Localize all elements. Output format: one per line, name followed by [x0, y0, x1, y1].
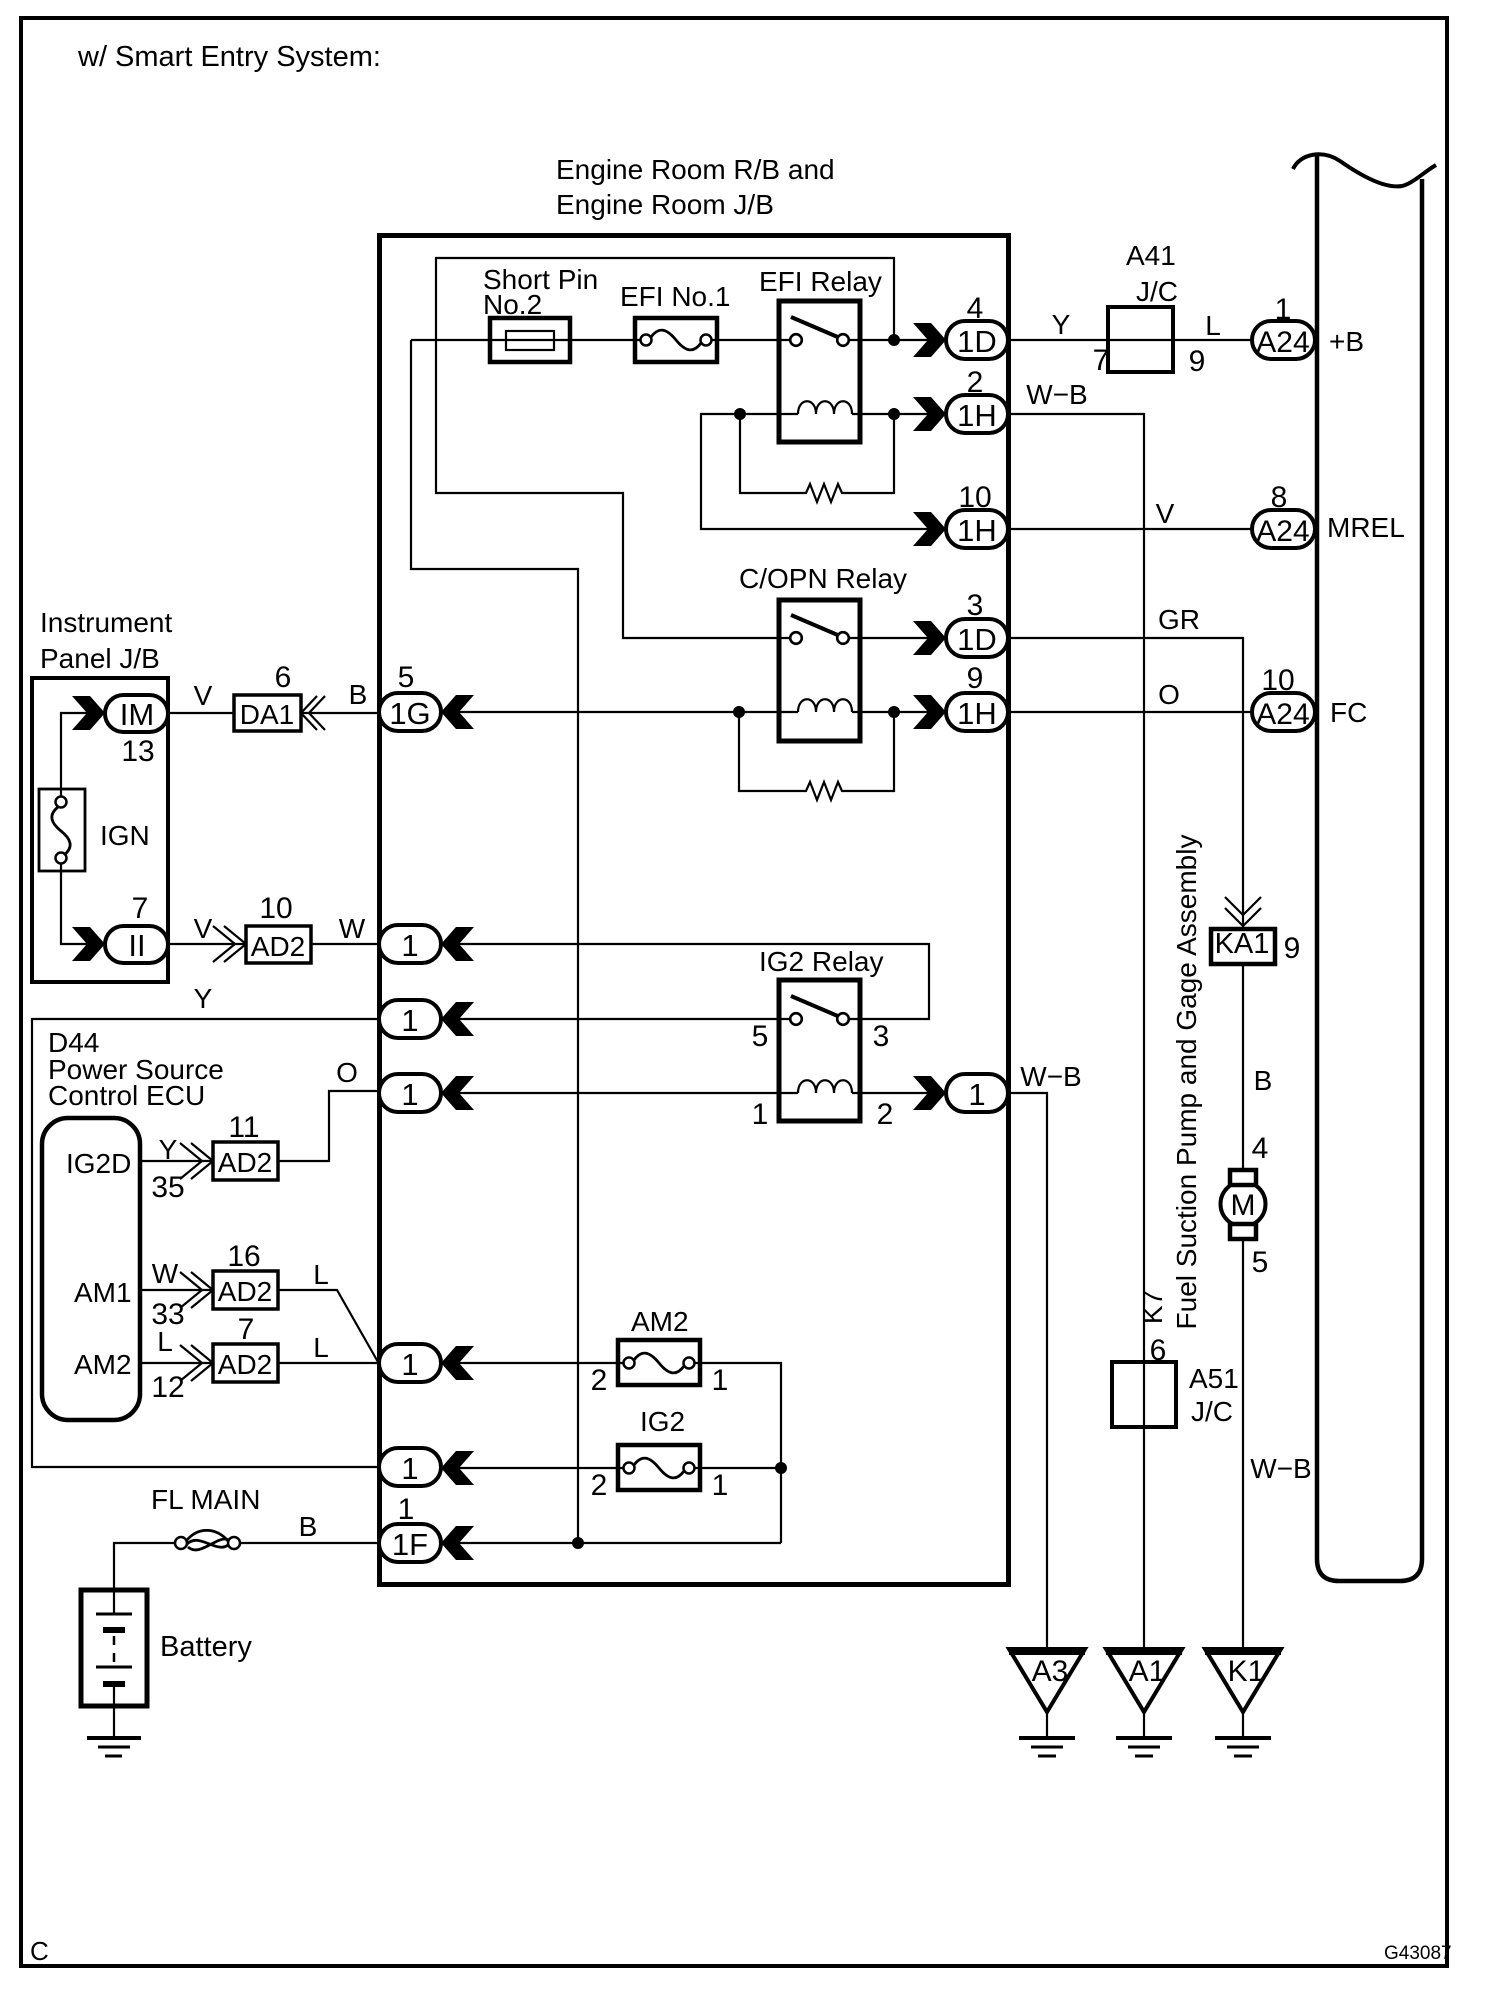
svg-text:7: 7: [238, 1313, 255, 1346]
svg-text:2: 2: [591, 1469, 608, 1502]
svg-text:W−B: W−B: [1250, 1453, 1311, 1484]
svg-text:IG2: IG2: [640, 1406, 685, 1437]
junction connector AD2 (7): [180, 1344, 278, 1382]
svg-text:1H: 1H: [957, 398, 997, 433]
ground K1: [1205, 1649, 1281, 1756]
connector 1 (W-B out): [913, 1076, 946, 1110]
motor M fuel pump: [1221, 1170, 1266, 1239]
svg-text:9: 9: [967, 662, 984, 695]
svg-text:4: 4: [967, 292, 984, 325]
wire: AM1 to AD2 (16): [140, 1289, 213, 1291]
svg-text:Panel J/B: Panel J/B: [40, 643, 160, 674]
Engine Room R/B and J/B box: [380, 236, 1009, 1585]
wire: battery to FL MAIN to 1F: [114, 1543, 379, 1590]
svg-text:IG2D: IG2D: [66, 1148, 131, 1179]
svg-text:A1: A1: [1129, 1655, 1166, 1688]
svg-text:B: B: [349, 679, 368, 710]
svg-text:O: O: [336, 1057, 358, 1088]
connector 1D (4): [913, 323, 946, 357]
wire: IG2 relay pin3 to 1 oval (W row): [458, 944, 929, 1019]
svg-text:11: 11: [228, 1111, 259, 1144]
resistor: EFI relay parallel resistor: [740, 414, 894, 502]
Instrument Panel J/B box: [32, 678, 168, 982]
wire: 1 oval (L row) to AM2 fuse: [458, 1362, 620, 1364]
wire: J/B internal IGN feed: [61, 713, 88, 944]
junction connector KA1: [1211, 897, 1275, 964]
connector 1 (L row): [441, 1346, 474, 1380]
svg-text:4: 4: [1252, 1132, 1269, 1165]
svg-text:w/ Smart Entry System:: w/ Smart Entry System:: [77, 41, 381, 73]
svg-text:J/C: J/C: [1136, 276, 1178, 307]
wire: battery feed from main wire down to 1F row: [411, 340, 578, 1543]
svg-text:Control ECU: Control ECU: [48, 1080, 205, 1111]
connector 1G: [441, 695, 474, 729]
connector IM: [72, 696, 105, 730]
fuse AM2: [618, 1340, 700, 1385]
svg-text:Battery: Battery: [160, 1631, 252, 1663]
svg-text:V: V: [1156, 498, 1175, 529]
connector II: [72, 927, 105, 961]
wire: Y loop from 1 oval to 1 oval: [32, 1019, 379, 1467]
connector 1H (10): [913, 512, 946, 546]
svg-text:Engine Room J/B: Engine Room J/B: [556, 189, 774, 220]
svg-text:FC: FC: [1330, 697, 1367, 728]
svg-text:1: 1: [712, 1469, 729, 1502]
svg-text:KA1: KA1: [1215, 928, 1270, 960]
svg-text:1G: 1G: [389, 696, 430, 731]
svg-text:No.2: No.2: [483, 289, 542, 320]
short pin No.2: [490, 318, 570, 362]
junction connector DA1: [234, 695, 325, 731]
svg-text:1: 1: [401, 1347, 418, 1382]
svg-text:K1: K1: [1228, 1655, 1265, 1688]
connector 1H (2): [913, 397, 946, 431]
svg-text:1: 1: [401, 1003, 418, 1038]
junction dot at IG2 fuse output riser: [775, 1462, 787, 1474]
svg-text:10: 10: [1261, 664, 1294, 697]
svg-text:6: 6: [275, 661, 292, 694]
connector 1F: [441, 1526, 474, 1560]
svg-text:O: O: [1158, 679, 1180, 710]
wire: 1 oval (Y row) to IG2 relay pin5: [458, 1018, 790, 1020]
connector 1 (Y loop row): [441, 1451, 474, 1485]
svg-text:AD2: AD2: [218, 1276, 272, 1307]
svg-text:1H: 1H: [957, 513, 997, 548]
wire: EFI relay output loop to C/OPN relay switch: [436, 258, 894, 638]
wire: AD2 (16) L output diagonal to L row: [278, 1290, 378, 1362]
junction connector AD2 (16): [180, 1271, 278, 1309]
svg-text:12: 12: [151, 1371, 184, 1404]
svg-text:W−B: W−B: [1020, 1061, 1081, 1092]
svg-text:A51: A51: [1189, 1363, 1239, 1394]
svg-text:V: V: [194, 913, 213, 944]
svg-text:AM2: AM2: [631, 1306, 689, 1337]
svg-text:7: 7: [132, 892, 149, 925]
ground A3: [1009, 1649, 1085, 1756]
junction dot at EFI relay switch output: [888, 334, 900, 346]
svg-text:A24: A24: [1256, 326, 1309, 359]
svg-text:FL MAIN: FL MAIN: [151, 1484, 260, 1515]
svg-text:L: L: [313, 1259, 329, 1290]
svg-text:2: 2: [877, 1098, 894, 1131]
svg-text:9: 9: [1189, 345, 1206, 378]
junction dot at EFI coil right: [888, 408, 900, 420]
svg-text:13: 13: [121, 735, 154, 768]
wire: 1D to A41 to A24 +B: [1008, 339, 1252, 341]
connector A24 FC: [1252, 693, 1315, 731]
svg-text:Fuel Suction Pump and Gage Ass: Fuel Suction Pump and Gage Assembly: [1171, 835, 1202, 1330]
wire: 1G to C/OPN relay coil to 1H(9): [458, 711, 929, 713]
svg-text:8: 8: [1271, 481, 1288, 514]
wire: 1H(10) to A24 MREL: [1008, 528, 1252, 530]
svg-text:Y: Y: [159, 1134, 178, 1165]
svg-text:AD2: AD2: [218, 1349, 272, 1380]
svg-text:IM: IM: [120, 697, 154, 732]
wire: 1H(9) to A24 FC: [1008, 711, 1252, 713]
svg-text:Y: Y: [1052, 309, 1071, 340]
fusible link FL MAIN: [175, 1530, 240, 1550]
junction dot at EFI coil left: [734, 408, 746, 420]
svg-text:EFI No.1: EFI No.1: [620, 281, 730, 312]
svg-text:L: L: [1205, 310, 1221, 341]
svg-text:35: 35: [151, 1171, 184, 1204]
svg-text:AM2: AM2: [74, 1349, 132, 1380]
fuse IGN: [39, 789, 85, 871]
svg-text:A41: A41: [1126, 240, 1176, 271]
ECM block: [1293, 154, 1436, 1581]
svg-text:2: 2: [591, 1364, 608, 1397]
ground below battery: [87, 1738, 141, 1756]
svg-text:W: W: [152, 1258, 179, 1289]
connector 1 (W row): [441, 927, 474, 961]
svg-text:1: 1: [401, 928, 418, 963]
junction connector AD2 (11): [180, 1142, 278, 1180]
svg-text:10: 10: [259, 892, 292, 925]
relay EFI Relay: [779, 301, 929, 442]
svg-text:5: 5: [398, 661, 415, 694]
wire: C/OPN relay switch output to 1D(3): [849, 637, 929, 639]
wire: 1 oval to IG2 fuse: [458, 1467, 620, 1469]
svg-text:L: L: [313, 1332, 329, 1363]
svg-text:IG2 Relay: IG2 Relay: [759, 946, 884, 977]
svg-text:A24: A24: [1256, 515, 1309, 548]
connector A24 +B: [1252, 321, 1315, 359]
svg-text:II: II: [128, 928, 145, 963]
svg-text:1: 1: [401, 1077, 418, 1112]
svg-text:DA1: DA1: [240, 699, 294, 730]
fuse IG2: [618, 1445, 700, 1490]
svg-text:V: V: [194, 680, 213, 711]
battery: [81, 1590, 147, 1736]
wire: AM2 to AD2 (7) to 1 oval: [140, 1362, 379, 1364]
svg-text:B: B: [1254, 1065, 1273, 1096]
svg-text:GR: GR: [1158, 604, 1200, 635]
wire: 1H(2) W-B down to ground A1: [1008, 414, 1144, 1649]
wire: 1D(3) GR down to KA1 and pump: [1008, 638, 1243, 1649]
relay C/OPN Relay: [779, 600, 860, 741]
svg-text:1: 1: [712, 1364, 729, 1397]
svg-text:MREL: MREL: [1327, 512, 1405, 543]
svg-text:K7: K7: [1137, 1290, 1168, 1324]
svg-text:Y: Y: [194, 983, 213, 1014]
connector 1H (9): [913, 695, 946, 729]
connector 1 (Y row): [441, 1002, 474, 1036]
svg-text:AM1: AM1: [74, 1277, 132, 1308]
svg-text:3: 3: [873, 1020, 890, 1053]
svg-text:J/C: J/C: [1191, 1396, 1233, 1427]
junction dot at C/OPN coil right: [888, 706, 900, 718]
svg-text:2: 2: [967, 366, 984, 399]
connector 1D (3): [913, 621, 946, 655]
svg-text:Engine Room R/B and: Engine Room R/B and: [556, 154, 835, 185]
connector A24 MREL: [1252, 510, 1315, 548]
svg-text:A3: A3: [1032, 1655, 1069, 1688]
svg-text:3: 3: [967, 589, 984, 622]
wire: IG2 fuse to riser: [698, 1467, 781, 1469]
wire: 1 oval (O row) to IG2 relay coil to 1 oval out: [458, 1092, 929, 1094]
svg-text:W: W: [339, 913, 366, 944]
svg-text:1: 1: [401, 1451, 418, 1486]
wire: AM2 fuse to junction riser: [698, 1363, 781, 1543]
svg-text:M: M: [1231, 1189, 1256, 1222]
svg-text:5: 5: [1252, 1246, 1269, 1279]
wire: IM to DA1 to 1G: [168, 712, 379, 714]
svg-text:16: 16: [227, 1240, 260, 1273]
svg-text:IGN: IGN: [100, 820, 150, 851]
svg-text:AD2: AD2: [251, 931, 305, 962]
svg-text:B: B: [299, 1511, 318, 1542]
relay IG2 Relay: [779, 980, 860, 1121]
fuse EFI No.1: [635, 318, 717, 362]
connector 1 (O row): [441, 1076, 474, 1110]
svg-text:1F: 1F: [392, 1527, 428, 1562]
svg-text:EFI Relay: EFI Relay: [759, 266, 882, 297]
svg-text:C: C: [30, 1936, 49, 1966]
wire: 1 oval W-B down to ground A3: [1008, 1093, 1047, 1649]
svg-text:AD2: AD2: [218, 1147, 272, 1178]
svg-text:A24: A24: [1256, 698, 1309, 731]
wire: AD2 (11) to 1 oval O row: [278, 1091, 379, 1161]
D44 Power Source Control ECU box: [42, 1118, 140, 1420]
svg-text:1H: 1H: [957, 696, 997, 731]
svg-text:9: 9: [1284, 932, 1301, 965]
junction connector A51 J/C: [1112, 1362, 1239, 1427]
wire: IG2D to AD2 (11): [140, 1160, 213, 1162]
svg-text:1: 1: [1275, 293, 1292, 326]
wire: 1F to fuse riser: [458, 1542, 781, 1544]
junction dot at C/OPN coil left: [733, 706, 745, 718]
svg-text:1: 1: [968, 1077, 985, 1112]
wire: EFI relay coil row: [740, 413, 929, 415]
svg-text:W−B: W−B: [1026, 379, 1087, 410]
svg-text:1: 1: [398, 1493, 415, 1526]
svg-text:G43087: G43087: [1384, 1943, 1452, 1964]
svg-text:L: L: [157, 1326, 173, 1357]
svg-text:C/OPN Relay: C/OPN Relay: [739, 563, 907, 594]
junction connector A41 J/C: [1108, 240, 1178, 372]
wire: main power wire at y=340: [411, 339, 790, 341]
svg-text:Instrument: Instrument: [40, 607, 172, 638]
svg-text:1: 1: [752, 1098, 769, 1131]
svg-text:+B: +B: [1329, 326, 1364, 357]
junction connector AD2 (10): [213, 926, 311, 963]
junction dot on 1F wire: [572, 1537, 584, 1549]
svg-text:5: 5: [752, 1020, 769, 1053]
svg-text:1D: 1D: [957, 324, 997, 359]
svg-text:7: 7: [1093, 344, 1110, 377]
wire: EFI relay coil feed to 1H(10): [701, 414, 929, 529]
ground A1: [1106, 1649, 1182, 1756]
svg-text:1D: 1D: [957, 622, 997, 657]
wire: II to AD2 to 1 oval: [168, 943, 379, 945]
svg-text:10: 10: [958, 481, 991, 514]
resistor: C/OPN relay parallel resistor: [739, 712, 894, 800]
